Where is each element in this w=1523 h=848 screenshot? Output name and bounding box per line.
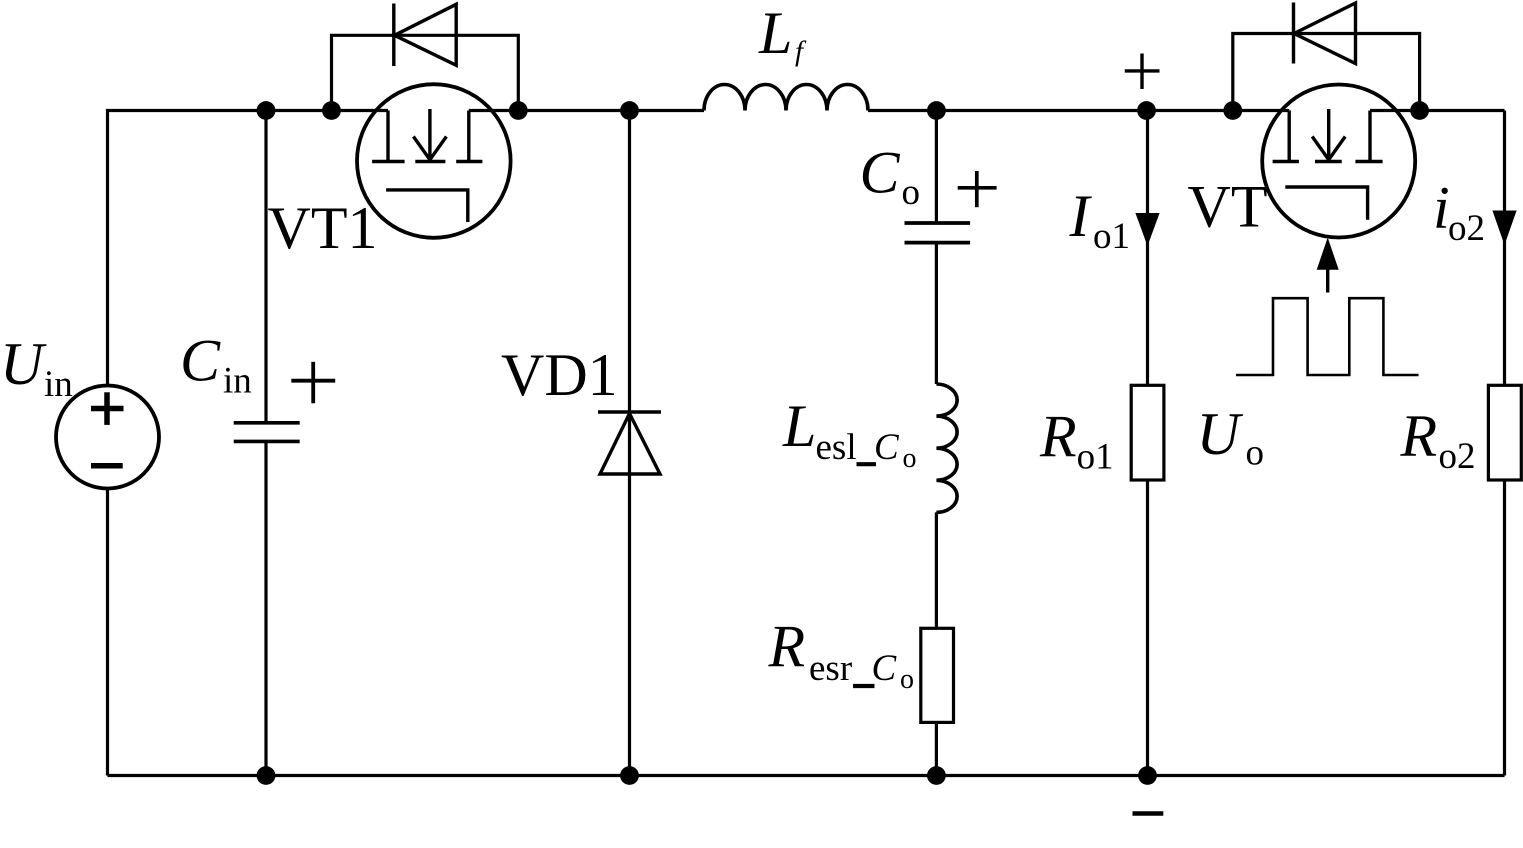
resistor R_o1 [1131, 385, 1164, 480]
node: Cin bottom junction [257, 766, 276, 785]
gate pulse waveform [1236, 298, 1419, 375]
svg-text:esl: esl [816, 427, 857, 468]
capacitor C_o [905, 223, 971, 243]
wire bottom rail [108, 774, 1505, 777]
svg-text:L: L [758, 0, 792, 66]
body diode of VT1 [394, 4, 456, 67]
svg-text:R: R [1400, 403, 1438, 469]
label I_o1 [1069, 183, 1131, 257]
wire VD1 branch bottom [628, 413, 631, 776]
node: VD1 top junction [620, 101, 639, 120]
svg-text:in: in [223, 361, 252, 402]
label L_f [758, 0, 807, 67]
node: Ro1 bottom junction [1138, 766, 1157, 785]
svg-text:o: o [900, 664, 914, 695]
svg-text:VT: VT [1188, 173, 1268, 239]
label U_o [1197, 401, 1265, 473]
svg-text:o1: o1 [1077, 436, 1114, 477]
diode VD1 [598, 412, 661, 474]
svg-text:L: L [782, 393, 816, 459]
wire Uin bottom lead [106, 489, 109, 776]
body diode of VT [1294, 3, 1356, 64]
wire top rail left segment [108, 111, 389, 386]
plus polarity of C_o [958, 171, 997, 207]
plus polarity of C_in [291, 362, 335, 404]
plus sign output [1125, 54, 1160, 90]
wire top rail right-middle segment [868, 109, 1289, 112]
label R_esr_Co [768, 614, 915, 695]
label C_in [180, 327, 252, 401]
wire Ro2 to bottom rail [1503, 480, 1506, 776]
resistor R_o2 [1488, 385, 1521, 480]
inductor L_f [704, 85, 868, 111]
voltage source U_in [56, 386, 159, 489]
svg-text:o2: o2 [1439, 436, 1476, 477]
label C_o [860, 140, 921, 214]
svg-text:C: C [180, 327, 221, 393]
node: VT right junction [1410, 101, 1429, 120]
svg-text:I: I [1069, 183, 1093, 249]
svg-text:o2: o2 [1448, 208, 1485, 249]
resistor R_esr_Co [921, 628, 954, 722]
node: VD1 bottom junction [620, 766, 639, 785]
svg-text:o1: o1 [1093, 216, 1130, 257]
svg-text:R: R [1039, 404, 1077, 470]
label i_o2 [1433, 175, 1485, 249]
label U_in [0, 331, 73, 405]
svg-text:U: U [1197, 401, 1244, 467]
svg-text:VT1: VT1 [268, 195, 378, 261]
svg-text:C: C [874, 427, 900, 468]
wire Lesl to Resr [935, 512, 938, 628]
svg-text:esr: esr [809, 648, 852, 689]
svg-text:C: C [860, 140, 901, 206]
svg-text:o: o [902, 172, 921, 213]
wire VT1 body diode loop [332, 35, 519, 110]
transistor VT1 (MOSFET in circle) [357, 84, 511, 238]
node: VT1 left junction [322, 101, 341, 120]
svg-text:VD1: VD1 [501, 342, 618, 408]
minus sign output [1133, 811, 1164, 816]
wire VT body diode loop [1233, 34, 1420, 111]
node: Ro1 top junction [1137, 101, 1156, 120]
svg-text:o: o [1246, 433, 1265, 474]
wire Cin branch bottom [264, 441, 267, 776]
svg-text:C: C [872, 648, 898, 689]
wire right edge down to Ro2 [1503, 111, 1506, 386]
current arrow i_o2 [1492, 211, 1516, 246]
wire VD1 branch top [628, 111, 631, 411]
label R_o1 [1039, 404, 1114, 478]
node: Co top junction [927, 101, 946, 120]
svg-text:in: in [44, 364, 73, 405]
wire Resr to bottom rail [935, 722, 938, 775]
svg-text:U: U [0, 331, 47, 397]
node: VT left junction [1223, 101, 1242, 120]
node: Cin top rail junction [257, 101, 276, 120]
inductor L_esl_Co [936, 384, 957, 512]
capacitor C_in [234, 423, 300, 442]
wire top rail middle segment [469, 109, 704, 112]
wire top rail right segment [1370, 109, 1505, 112]
svg-text:R: R [768, 614, 806, 680]
svg-text:f: f [795, 36, 807, 68]
gate drive arrow of VT [1317, 238, 1339, 293]
current arrow I_o1 [1135, 213, 1159, 246]
wire Cin branch top [264, 111, 267, 424]
label R_o2 [1400, 403, 1476, 477]
wire Co branch top [935, 111, 938, 224]
svg-text:o: o [903, 443, 917, 474]
wire Co to Lesl [935, 243, 938, 384]
wire Ro1 branch bottom [1146, 480, 1149, 776]
transistor VT (MOSFET in circle) [1262, 85, 1415, 238]
node: Resr bottom junction [927, 766, 946, 785]
wire Ro1 branch top [1146, 111, 1149, 386]
node: VT1 right junction [509, 101, 528, 120]
label L_esl_Co [782, 393, 917, 474]
